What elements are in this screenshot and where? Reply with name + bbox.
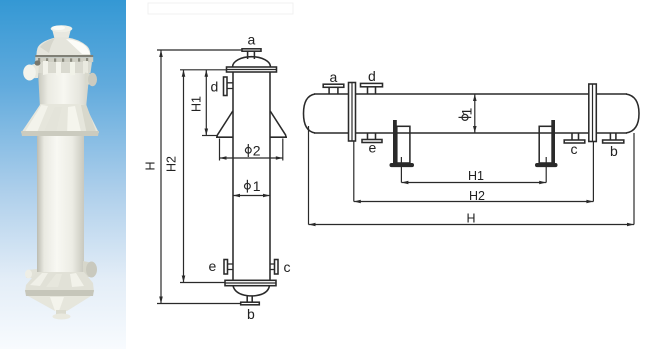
- svg-text:d: d: [211, 79, 219, 95]
- cone skirt left: [216, 111, 233, 137]
- svg-text:e: e: [209, 258, 217, 274]
- bottom body flange: [225, 280, 276, 285]
- dim H2 top extension: [180, 69, 227, 71]
- dim phi1 vertical line: [474, 94, 476, 133]
- right saddle web plate: [551, 120, 555, 164]
- nozzle a stem: [248, 51, 255, 59]
- left upper nozzle: [26, 63, 40, 79]
- nozzle b flange: [241, 302, 260, 305]
- label phi2: [245, 144, 251, 157]
- dim phi2 line: [220, 157, 283, 159]
- right girth flange: [589, 84, 597, 142]
- dim H top extension: [157, 49, 242, 51]
- nozzle a flange: [323, 84, 344, 87]
- left saddle web plate: [393, 120, 397, 164]
- dim phi1 line: [233, 195, 270, 197]
- svg-text:2: 2: [253, 143, 261, 159]
- nozzle e stem: [368, 133, 376, 140]
- svg-text:d: d: [368, 68, 376, 84]
- label phi1 rotated: [459, 114, 472, 120]
- nozzle b stem: [610, 133, 616, 140]
- vessel main column: [37, 132, 84, 274]
- svg-text:e: e: [369, 140, 377, 156]
- nozzle d flange: [224, 77, 228, 96]
- top dome head: [233, 57, 271, 67]
- nozzle e stem: [228, 264, 234, 270]
- svg-text:a: a: [248, 32, 256, 48]
- dim H connector right: [633, 133, 635, 225]
- nozzle c stem: [572, 133, 579, 140]
- dim H connector left: [308, 126, 310, 225]
- left saddle body: [397, 126, 410, 163]
- svg-text:H: H: [467, 212, 476, 226]
- top knob nozzle: [52, 29, 71, 39]
- dome head: [36, 38, 90, 56]
- bottom cone: [28, 296, 91, 311]
- nozzle c flange: [275, 260, 279, 275]
- nozzle d stem: [227, 83, 233, 89]
- left head: [304, 94, 316, 133]
- bottom dished head: [233, 286, 270, 296]
- left saddle base plate: [390, 163, 415, 167]
- dim H1 connector right: [545, 157, 547, 183]
- svg-text:H: H: [144, 161, 158, 170]
- bottom flange band with ribs: [25, 272, 94, 292]
- svg-text:1: 1: [253, 178, 261, 194]
- dim H2 connector left: [353, 141, 355, 202]
- dim H bottom extension: [157, 303, 241, 305]
- shell top line: [314, 93, 627, 95]
- nozzle a stem: [329, 87, 338, 94]
- column shell walls: [233, 72, 270, 280]
- svg-text:1: 1: [459, 108, 475, 116]
- nozzle d stem: [368, 87, 376, 94]
- svg-text:c: c: [571, 141, 578, 157]
- left girth flange: [349, 83, 356, 142]
- right head: [626, 94, 639, 133]
- dim H2 bottom extension: [180, 282, 225, 284]
- flange ring thin dark line: [35, 55, 93, 57]
- dim H1 bottom extension: [202, 135, 217, 137]
- nozzle b flange: [603, 140, 624, 143]
- right saddle body: [539, 126, 553, 163]
- photo background sky gradient: [0, 0, 126, 349]
- dim H2 line: [354, 201, 594, 203]
- dim H2 vertical line: [183, 70, 185, 283]
- dim H2 connector right: [592, 142, 594, 202]
- dim H vertical line: [160, 50, 162, 304]
- svg-text:H2: H2: [165, 156, 179, 172]
- bottom right nozzle: [83, 261, 94, 277]
- right upper nozzle: [85, 73, 94, 85]
- vessel upper column: [38, 62, 91, 108]
- nozzle a flange: [242, 49, 261, 51]
- svg-text:H1: H1: [190, 96, 204, 112]
- nozzle d flange: [361, 83, 383, 86]
- svg-text:a: a: [330, 69, 338, 85]
- dim H1 connector left: [400, 157, 402, 183]
- faint artifact box top-left: [148, 3, 293, 14]
- svg-text:b: b: [247, 306, 255, 322]
- skirt flare cone: [21, 104, 99, 133]
- dim H1 line: [401, 182, 546, 184]
- bottom left nozzle: [26, 269, 37, 278]
- nozzle b stem: [247, 296, 252, 302]
- svg-text:H2: H2: [469, 189, 485, 203]
- svg-text:b: b: [610, 143, 618, 159]
- dim H line: [309, 224, 635, 226]
- nozzle c flange: [564, 140, 585, 143]
- right saddle base plate: [535, 163, 558, 167]
- label phi1: [245, 180, 251, 193]
- top body flange: [227, 67, 277, 72]
- bottom small nozzle: [56, 310, 66, 316]
- svg-text:H1: H1: [468, 169, 484, 183]
- dim H1 vertical line: [205, 70, 207, 136]
- svg-text:c: c: [284, 259, 291, 275]
- cone skirt right: [270, 111, 287, 137]
- dim phi2 extension lines: [220, 139, 283, 161]
- shoulder band with lugs: [37, 62, 93, 73]
- nozzle e flange: [224, 260, 228, 275]
- shell bottom line: [314, 132, 627, 134]
- nozzle e flange: [362, 140, 382, 143]
- nozzle c stem: [270, 264, 275, 270]
- flange ring band with bolt dashes: [35, 57, 93, 62]
